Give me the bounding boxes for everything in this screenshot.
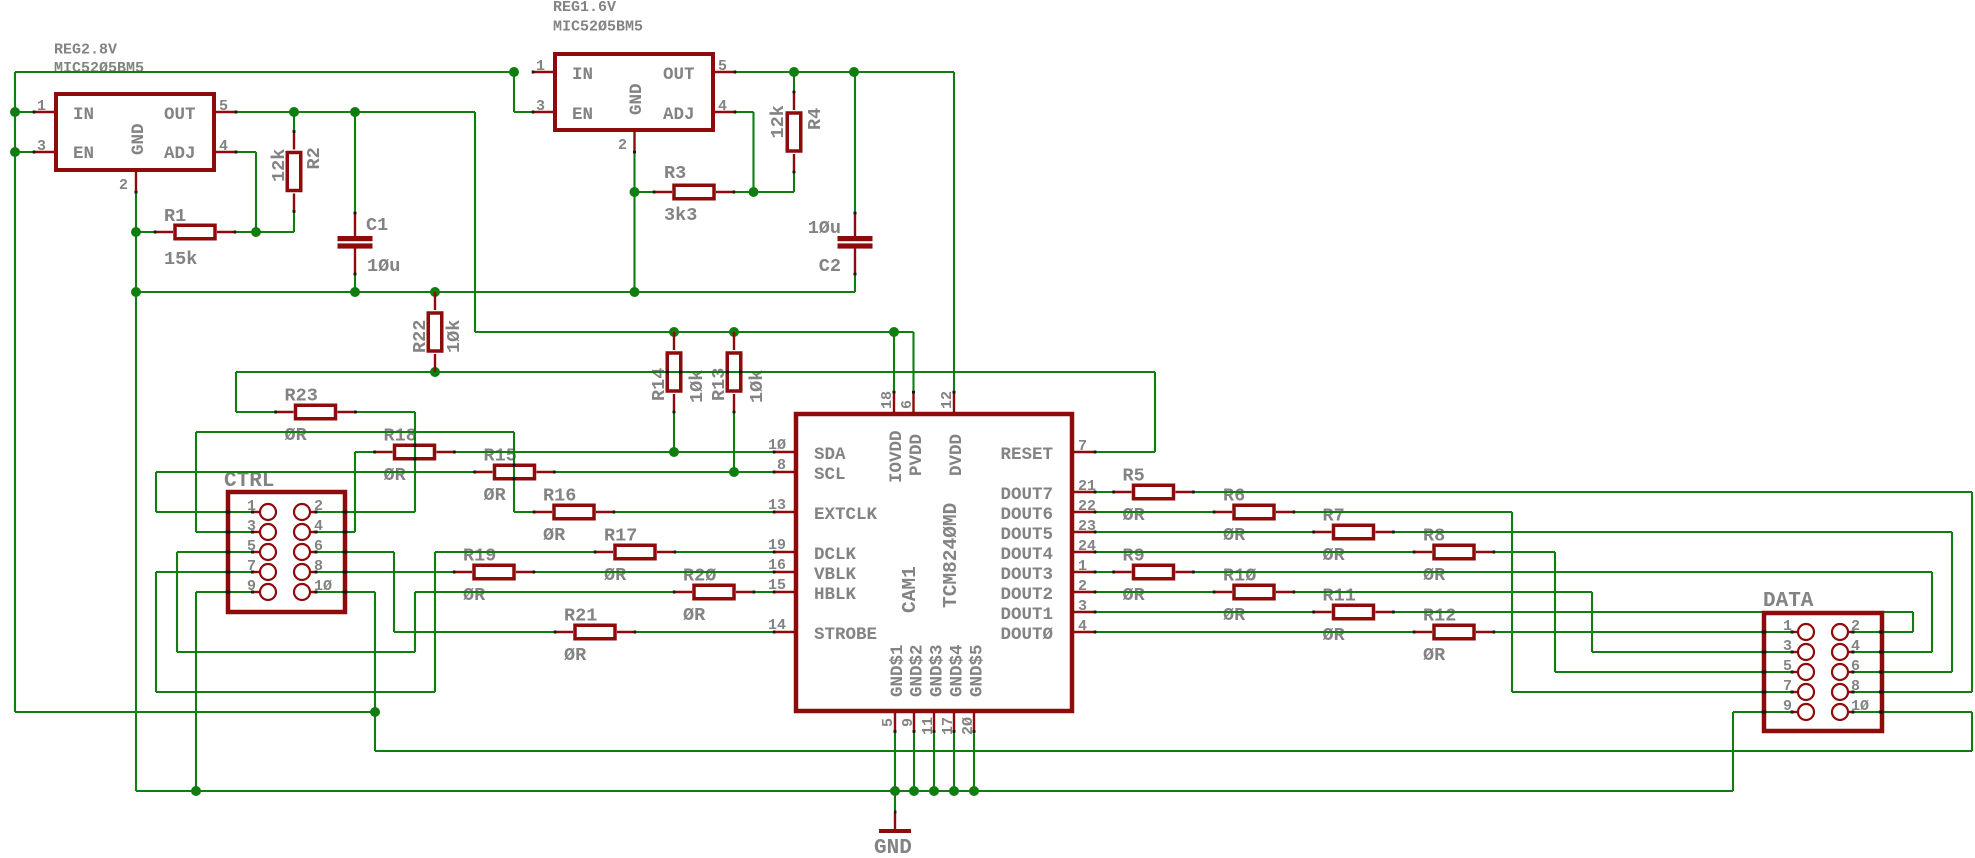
junction R3 right bbox=[749, 187, 759, 197]
overlap tick R15 bottom bbox=[513, 477, 516, 480]
CTRL pad circle 1 bbox=[260, 504, 276, 520]
wire VIN row 712 bbox=[15, 711, 375, 713]
pin tick cap bbox=[854, 212, 857, 215]
pin tick R10 right bbox=[1293, 591, 1296, 594]
pin tick R11 left bbox=[1312, 611, 1315, 614]
resistor R11 bbox=[1314, 611, 1332, 613]
connector CTRL body bbox=[228, 492, 345, 612]
pin tick R1 left bbox=[154, 231, 157, 234]
overlap tick CTRL right edge row 552 bbox=[343, 551, 348, 554]
pin tick R15 left bbox=[473, 471, 476, 474]
svg-text:ØR: ØR bbox=[1423, 565, 1446, 586]
junction R22 top bbox=[430, 287, 440, 297]
REG2 pin 3 stub bbox=[34, 151, 55, 153]
junction R22 bottom bbox=[430, 367, 440, 377]
DATA left pin stub row 672 bbox=[1793, 671, 1798, 673]
svg-text:R2: R2 bbox=[304, 147, 325, 169]
pin tick R21 right bbox=[634, 631, 637, 634]
wire GND$4 pin link bbox=[953, 732, 955, 792]
DATA pad circle 5 bbox=[1798, 664, 1814, 680]
GND lead junction tick bbox=[894, 811, 896, 814]
wire gnd rail left bbox=[135, 232, 137, 292]
wire DOUT6 left bbox=[1095, 511, 1214, 513]
wire DOUT5 left bbox=[1095, 531, 1313, 533]
pin tick REG1 bbox=[734, 71, 737, 74]
C2 bottom lead bbox=[854, 249, 856, 275]
DATA pad circle 8 bbox=[1832, 684, 1848, 700]
CAM1 bottom pin stub x 974 bbox=[973, 713, 975, 732]
resistor R5 bbox=[1114, 491, 1132, 493]
svg-text:PVDD: PVDD bbox=[907, 434, 927, 476]
wire DOUT7 left bbox=[1095, 491, 1114, 493]
resistor R9 bbox=[1114, 571, 1132, 573]
svg-text:TCM824ØMD: TCM824ØMD bbox=[940, 503, 962, 608]
wire R3 right link bbox=[734, 191, 754, 193]
overlap tick CTRL left edge row 572 bbox=[226, 571, 231, 574]
pin tick R13 bottom bbox=[733, 411, 736, 414]
resistor R14 bbox=[673, 332, 675, 350]
junction GND4 bbox=[949, 786, 959, 796]
CTRL right pin stub row 532 bbox=[310, 531, 317, 533]
svg-text:C1: C1 bbox=[366, 215, 388, 236]
pin tick REG1 bbox=[532, 111, 535, 114]
junction GND3 bbox=[929, 786, 939, 796]
capacitor C1 bbox=[338, 236, 373, 241]
pin tick REG2 gnd bbox=[135, 191, 138, 194]
junction R13 top bbox=[729, 327, 739, 337]
overlap tick DATA right edge row 632 bbox=[1879, 631, 1884, 634]
wire GND bottom row bbox=[136, 790, 1733, 792]
pin tick R3 right bbox=[733, 191, 736, 194]
resistor R8 bbox=[1414, 551, 1432, 553]
pin tick CAM1 bottom x 895 bbox=[894, 730, 897, 733]
pin tick CAM1 bottom x 954 bbox=[953, 730, 956, 733]
junction R13 bottom SCL bbox=[729, 467, 739, 477]
wire GND$3 pin link bbox=[933, 732, 935, 792]
wire R3 left link bbox=[635, 191, 655, 193]
svg-text:1Øk: 1Øk bbox=[444, 320, 465, 353]
C1 top lead bbox=[354, 213, 356, 236]
pin tick R17 right bbox=[674, 551, 677, 554]
CAM1 left pin stub row 592 bbox=[774, 591, 794, 593]
DATA pin junction tick row 692 bbox=[1791, 691, 1794, 694]
CAM1 top pin stub x 954 bbox=[953, 392, 955, 412]
wire DOUT1 to DATA2 bbox=[1393, 611, 1913, 613]
svg-text:R11: R11 bbox=[1323, 586, 1356, 607]
pin tick CAM1 left row 472 bbox=[773, 471, 776, 474]
svg-text:IN: IN bbox=[73, 105, 94, 125]
junction VIN row bbox=[370, 707, 380, 717]
DATA pad circle 1 bbox=[1798, 624, 1814, 640]
junction C1 top bbox=[350, 107, 360, 117]
resistor R16 bbox=[534, 511, 552, 513]
pin tick R15 right bbox=[553, 471, 556, 474]
CAM1 right pin stub row 452 bbox=[1073, 451, 1095, 453]
svg-text:3k3: 3k3 bbox=[664, 205, 697, 226]
wire R23 left link bbox=[236, 411, 275, 413]
wire R23 to CTRL2 bbox=[356, 411, 416, 413]
CAM1 left pin stub row 472 bbox=[774, 471, 794, 473]
wire C1 bottom link bbox=[354, 274, 356, 292]
pin tick R12 left bbox=[1413, 631, 1416, 634]
svg-text:ØR: ØR bbox=[604, 565, 627, 586]
CTRL right pin stub row 572 bbox=[310, 571, 317, 573]
junction VIN/REG1 bbox=[509, 67, 519, 77]
svg-text:VBLK: VBLK bbox=[814, 565, 857, 585]
junction R4 top bbox=[789, 67, 799, 77]
CTRL left pin stub row 552 bbox=[253, 551, 260, 553]
junction IOVDD bbox=[889, 327, 899, 337]
pin tick R2 bottom bbox=[293, 210, 296, 213]
svg-text:R19: R19 bbox=[463, 546, 496, 567]
junction gnd row left bbox=[131, 287, 141, 297]
REG1 pin 2 stub bbox=[633, 131, 635, 152]
svg-text:GND: GND bbox=[627, 83, 647, 115]
pin tick CAM1 right row 452 bbox=[1094, 451, 1097, 454]
overlap tick R18 top bbox=[414, 444, 417, 447]
DATA pin junction tick row 632 bbox=[1791, 631, 1794, 634]
resistor R21 bbox=[555, 631, 573, 633]
pin tick R7 right bbox=[1392, 531, 1395, 534]
CTRL left pin stub row 572 bbox=[253, 571, 260, 573]
wire 2.8V row 332 bbox=[475, 331, 914, 333]
DATA left pin stub row 692 bbox=[1793, 691, 1798, 693]
svg-text:ADJ: ADJ bbox=[164, 144, 196, 164]
DATA pad circle 6 bbox=[1832, 664, 1848, 680]
pin tick CAM1 top x 913.5 bbox=[912, 391, 915, 394]
CAM1 left pin stub row 632 bbox=[774, 631, 794, 633]
wire GND$2 pin link bbox=[913, 732, 915, 792]
svg-text:HBLK: HBLK bbox=[814, 585, 857, 605]
pin tick R9 right bbox=[1192, 571, 1195, 574]
pin tick REG1 bbox=[734, 111, 737, 114]
wire EXTCLK strap row 432 bbox=[196, 431, 514, 433]
svg-text:ØR: ØR bbox=[1223, 525, 1246, 546]
svg-text:DOUT2: DOUT2 bbox=[1000, 585, 1053, 605]
svg-text:DOUTØ: DOUTØ bbox=[1000, 625, 1053, 645]
junction C2 top bbox=[849, 67, 859, 77]
pin tick CAM1 bottom x 914 bbox=[913, 730, 916, 733]
DATA pad circle 10 bbox=[1832, 704, 1848, 720]
ic REG2 MIC5205BM5 body bbox=[56, 94, 214, 170]
pin tick CAM1 top x 954 bbox=[953, 391, 956, 394]
wire DOUT1 left bbox=[1095, 611, 1313, 613]
resistor R10 bbox=[1214, 591, 1232, 593]
svg-text:R2Ø: R2Ø bbox=[683, 566, 716, 587]
junction ADJ2 node bbox=[251, 227, 261, 237]
wire PVDD riser bbox=[912, 332, 914, 392]
REG2 pin 4 stub bbox=[215, 151, 236, 153]
wire R1 left link bbox=[136, 231, 155, 233]
junction REG1 gnd bbox=[630, 287, 640, 297]
wire CTRL8 VBLK link bbox=[316, 571, 454, 573]
overlap tick R13 left bbox=[726, 371, 729, 374]
wire DOUT5 to DATA6 bbox=[1393, 531, 1952, 533]
CTRL pad circle 2 bbox=[294, 504, 310, 520]
resistor R2 bbox=[293, 132, 295, 150]
svg-text:R5: R5 bbox=[1123, 466, 1145, 487]
junction CTRL9 gnd bbox=[191, 786, 201, 796]
pin tick CAM1 right row 592 bbox=[1094, 591, 1097, 594]
CTRL pin junction tick row 552 bbox=[251, 551, 254, 554]
pin tick R17 left bbox=[594, 551, 597, 554]
svg-text:GND$3: GND$3 bbox=[928, 644, 948, 697]
wire DOUT4 to DATA5 bbox=[1494, 551, 1555, 553]
DATA pin junction tick row 672 bbox=[1791, 671, 1794, 674]
pin tick CAM1 right row 532 bbox=[1094, 531, 1097, 534]
wire RESET row 372 bbox=[236, 371, 1155, 373]
pin tick R18 right bbox=[453, 451, 456, 454]
overlap tick CTRL left edge row 552 bbox=[226, 551, 231, 554]
wire REG1 ADJ link bbox=[735, 111, 754, 113]
svg-text:ØR: ØR bbox=[1323, 625, 1346, 646]
svg-text:DOUT1: DOUT1 bbox=[1000, 605, 1053, 625]
svg-text:R17: R17 bbox=[604, 526, 637, 547]
DATA pin junction tick row 652 bbox=[1791, 651, 1794, 654]
pin tick R23 left bbox=[274, 411, 277, 414]
pin tick R11 right bbox=[1392, 611, 1395, 614]
CAM1 right pin stub row 612 bbox=[1073, 611, 1095, 613]
DATA pad circle 4 bbox=[1832, 644, 1848, 660]
svg-text:DOUT6: DOUT6 bbox=[1000, 505, 1053, 525]
DATA right pin stub row 712 bbox=[1848, 711, 1853, 713]
svg-text:R18: R18 bbox=[384, 426, 417, 447]
svg-text:GND$1: GND$1 bbox=[888, 644, 908, 697]
pin tick R8 right bbox=[1493, 551, 1496, 554]
CAM1 right pin stub row 632 bbox=[1073, 631, 1095, 633]
overlap tick DATA right edge row 692 bbox=[1879, 691, 1884, 694]
DATA pad circle 9 bbox=[1798, 704, 1814, 720]
svg-text:ØR: ØR bbox=[484, 485, 507, 506]
svg-text:EXTCLK: EXTCLK bbox=[814, 505, 878, 525]
overlap tick CTRL left edge row 592 bbox=[226, 591, 231, 594]
wire CTRL7 chain bbox=[156, 571, 253, 573]
overlap tick DATA left edge row 712 bbox=[1762, 711, 1767, 714]
resistor R3 bbox=[654, 191, 672, 193]
CTRL left pin stub row 512 bbox=[253, 511, 260, 513]
CTRL pad circle 5 bbox=[260, 544, 276, 560]
CTRL right pin stub row 592 bbox=[310, 591, 317, 593]
wire IOVDD riser bbox=[893, 332, 895, 392]
wire R1 right link bbox=[235, 231, 256, 233]
junction R14 top bbox=[669, 327, 679, 337]
svg-text:ØR: ØR bbox=[1423, 645, 1446, 666]
DATA right pin stub row 652 bbox=[1848, 651, 1853, 653]
svg-text:ØR: ØR bbox=[285, 425, 308, 446]
svg-text:DOUT5: DOUT5 bbox=[1000, 525, 1053, 545]
svg-text:R1Ø: R1Ø bbox=[1223, 566, 1256, 587]
overlap tick R18 bottom bbox=[414, 457, 417, 460]
svg-text:ØR: ØR bbox=[1223, 605, 1246, 626]
pin tick CAM1 left row 592 bbox=[773, 591, 776, 594]
CAM1 bottom pin stub x 895 bbox=[894, 713, 896, 732]
svg-text:R23: R23 bbox=[285, 386, 318, 407]
CAM1 bottom pin stub x 914 bbox=[913, 713, 915, 732]
pin tick R12 right bbox=[1493, 631, 1496, 634]
DATA left pin stub row 712 bbox=[1793, 711, 1798, 713]
overlap tick CTRL left edge row 512 bbox=[226, 511, 231, 514]
svg-text:GND: GND bbox=[129, 123, 149, 155]
wire HBLK link bbox=[754, 591, 774, 593]
wire R13 bottom link bbox=[733, 412, 735, 472]
overlap tick R13 right bbox=[739, 371, 742, 374]
DATA pad circle 2 bbox=[1832, 624, 1848, 640]
svg-text:ØR: ØR bbox=[1123, 505, 1146, 526]
junction R3 left bbox=[630, 187, 640, 197]
wire REG2 GND drop bbox=[135, 192, 137, 232]
pin tick CAM1 right row 612 bbox=[1094, 611, 1097, 614]
wire CTRL6 chain bbox=[316, 551, 394, 553]
svg-text:1Øu: 1Øu bbox=[367, 256, 400, 277]
pin tick R9 left bbox=[1112, 571, 1115, 574]
pin tick CAM1 right row 572 bbox=[1094, 571, 1097, 574]
CAM1 right pin stub row 552 bbox=[1073, 551, 1095, 553]
CTRL pin junction tick row 592 bbox=[251, 591, 254, 594]
svg-text:DVDD: DVDD bbox=[947, 434, 967, 476]
pin tick REG1 bbox=[532, 71, 535, 74]
DATA pad circle 3 bbox=[1798, 644, 1814, 660]
wire DOUT3 to DATA4 bbox=[1194, 571, 1933, 573]
svg-text:DCLK: DCLK bbox=[814, 545, 857, 565]
junction R2 top bbox=[289, 107, 299, 117]
svg-text:R7: R7 bbox=[1323, 506, 1345, 527]
overlap tick DATA left edge row 672 bbox=[1762, 671, 1767, 674]
pin tick R14 bottom bbox=[673, 411, 676, 414]
junction R14 bottom SDA bbox=[669, 447, 679, 457]
DATA pad circle 7 bbox=[1798, 684, 1814, 700]
wire C2 bottom link bbox=[854, 274, 856, 292]
CTRL right pin stub row 512 bbox=[310, 511, 317, 513]
CAM1 right pin stub row 512 bbox=[1073, 511, 1095, 513]
pin tick R20 left bbox=[673, 591, 676, 594]
svg-text:IOVDD: IOVDD bbox=[887, 430, 907, 483]
CAM1 left pin stub row 572 bbox=[774, 571, 794, 573]
pin tick cap bbox=[854, 273, 857, 276]
REG1 pin 5 stub bbox=[714, 71, 735, 73]
CTRL pad circle 7 bbox=[260, 564, 276, 580]
svg-text:ADJ: ADJ bbox=[663, 105, 695, 125]
CAM1 right pin stub row 592 bbox=[1073, 591, 1095, 593]
wire SDA row bbox=[455, 451, 775, 453]
CTRL pad circle 8 bbox=[294, 564, 310, 580]
CAM1 right pin stub row 572 bbox=[1073, 571, 1095, 573]
wire DOUT0 left bbox=[1095, 631, 1414, 633]
wire CTRL5 chain bbox=[177, 551, 253, 553]
wire 1.6V rail bbox=[735, 71, 954, 73]
svg-text:REG1.6V: REG1.6V bbox=[553, 0, 616, 16]
wire EXTCLK row bbox=[614, 511, 774, 513]
svg-text:ØR: ØR bbox=[1123, 585, 1146, 606]
overlap tick CTRL right edge row 592 bbox=[343, 591, 348, 594]
junction REG2 IN bbox=[10, 107, 20, 117]
pin tick CAM1 left row 552 bbox=[773, 551, 776, 554]
svg-text:ØR: ØR bbox=[683, 605, 706, 626]
CAM1 left pin stub row 512 bbox=[774, 511, 794, 513]
overlap tick DATA right edge row 672 bbox=[1879, 671, 1884, 674]
CTRL right pin stub row 552 bbox=[310, 551, 317, 553]
svg-text:2: 2 bbox=[618, 137, 627, 154]
CAM1 left pin stub row 452 bbox=[774, 451, 794, 453]
resistor R12 bbox=[1414, 631, 1432, 633]
resistor R7 bbox=[1314, 531, 1332, 533]
svg-text:2: 2 bbox=[119, 177, 128, 194]
CAM1 right pin stub row 492 bbox=[1073, 491, 1095, 493]
svg-text:MIC52Ø5BM5: MIC52Ø5BM5 bbox=[54, 60, 144, 77]
pin tick CAM1 right row 512 bbox=[1094, 511, 1097, 514]
pin tick CAM1 right row 552 bbox=[1094, 551, 1097, 554]
wire DOUT2 to DATA3 bbox=[1294, 591, 1592, 593]
pin tick REG2 bbox=[235, 151, 238, 154]
ic CAM1 TCM8240MD body bbox=[796, 414, 1072, 711]
overlap tick DATA left edge row 692 bbox=[1762, 691, 1767, 694]
wire SCL row right bbox=[554, 471, 774, 473]
C2 top lead bbox=[854, 213, 856, 236]
wire DOUT0 to DATA1 bbox=[1494, 631, 1792, 633]
wire R2 bottom link bbox=[256, 231, 294, 233]
svg-text:R3: R3 bbox=[664, 163, 686, 184]
svg-text:R6: R6 bbox=[1223, 486, 1245, 507]
CTRL left pin stub row 592 bbox=[253, 591, 260, 593]
svg-text:IN: IN bbox=[572, 65, 593, 85]
CTRL pad circle 4 bbox=[294, 524, 310, 540]
pin tick R5 left bbox=[1112, 491, 1115, 494]
svg-text:GND$4: GND$4 bbox=[948, 644, 968, 697]
pin tick R6 right bbox=[1293, 511, 1296, 514]
wire DOUT4 left bbox=[1095, 551, 1414, 553]
svg-text:ØR: ØR bbox=[564, 645, 587, 666]
wire gnd row 292 bbox=[136, 291, 855, 293]
wire R2 top link bbox=[293, 112, 295, 132]
CAM1 right pin stub row 532 bbox=[1073, 531, 1095, 533]
svg-text:EN: EN bbox=[73, 144, 94, 164]
overlap tick R14 left bbox=[666, 371, 669, 374]
svg-text:R12: R12 bbox=[1423, 606, 1456, 627]
overlap tick CTRL right edge row 572 bbox=[343, 571, 348, 574]
CTRL pin junction tick row 572 bbox=[251, 571, 254, 574]
pin tick CAM1 left row 512 bbox=[773, 511, 776, 514]
wire GND$5 pin link bbox=[973, 732, 975, 792]
pin tick R5 right bbox=[1192, 491, 1195, 494]
CTRL pin junction tick row 532 bbox=[251, 531, 254, 534]
svg-text:ØR: ØR bbox=[384, 465, 407, 486]
pin tick R23 right bbox=[354, 411, 357, 414]
wire DCLK link bbox=[675, 551, 774, 553]
pin tick R16 right bbox=[613, 511, 616, 514]
pin tick R6 left bbox=[1213, 511, 1216, 514]
resistor R4 bbox=[793, 92, 795, 110]
GND symbol lead bbox=[894, 812, 896, 830]
wire STROBE link bbox=[635, 631, 774, 633]
junction REG2 EN bbox=[10, 147, 20, 157]
wire RESET riser bbox=[1154, 372, 1156, 452]
ground symbol bbox=[879, 829, 911, 833]
resistor R17 bbox=[595, 551, 613, 553]
svg-text:DOUT7: DOUT7 bbox=[1000, 485, 1053, 505]
wire C1 top link bbox=[354, 112, 356, 213]
junction GND2 bbox=[909, 786, 919, 796]
svg-text:REG2.8V: REG2.8V bbox=[54, 42, 117, 59]
svg-text:SDA: SDA bbox=[814, 445, 846, 465]
overlap tick CTRL right edge row 512 bbox=[343, 511, 348, 514]
svg-text:MIC52Ø5BM5: MIC52Ø5BM5 bbox=[553, 19, 643, 36]
DATA left pin stub row 632 bbox=[1793, 631, 1798, 633]
svg-text:CAM1: CAM1 bbox=[899, 566, 921, 613]
resistor R23 bbox=[276, 411, 294, 413]
DATA left pin stub row 652 bbox=[1793, 651, 1798, 653]
overlap tick R14 right bbox=[679, 371, 682, 374]
CTRL pad circle 6 bbox=[294, 544, 310, 560]
wire DOUT3 left bbox=[1095, 571, 1114, 573]
